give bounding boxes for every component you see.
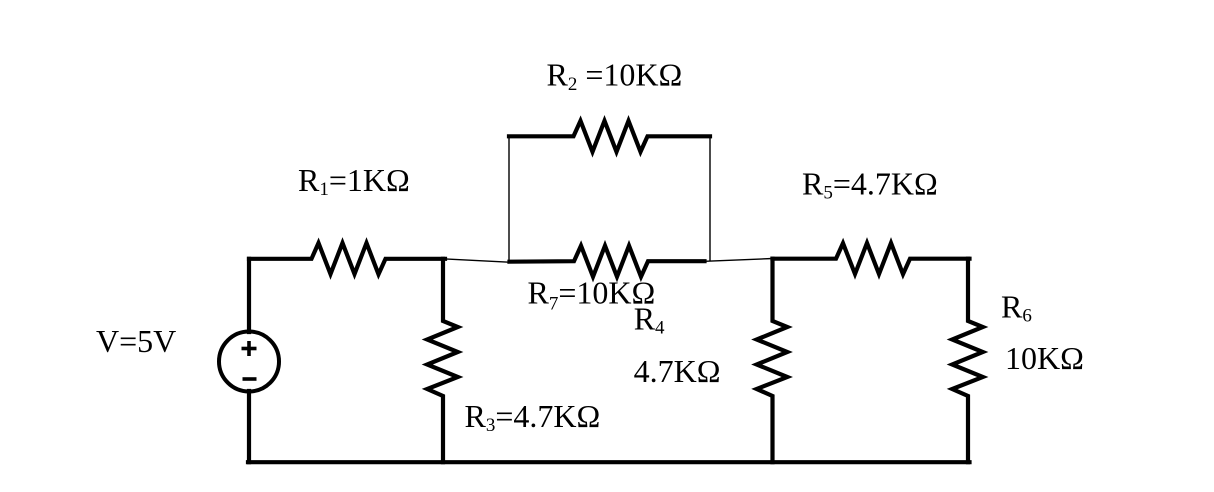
svg-text:R2 =10KΩ: R2 =10KΩ (547, 57, 683, 96)
svg-text:10KΩ: 10KΩ (1005, 340, 1084, 376)
svg-text:R1=1KΩ: R1=1KΩ (298, 162, 410, 200)
svg-text:R5=4.7KΩ: R5=4.7KΩ (802, 166, 938, 204)
svg-text:R3=4.7KΩ: R3=4.7KΩ (465, 398, 601, 436)
svg-text:V=5V: V=5V (96, 323, 176, 359)
svg-text:4.7KΩ: 4.7KΩ (634, 353, 721, 389)
